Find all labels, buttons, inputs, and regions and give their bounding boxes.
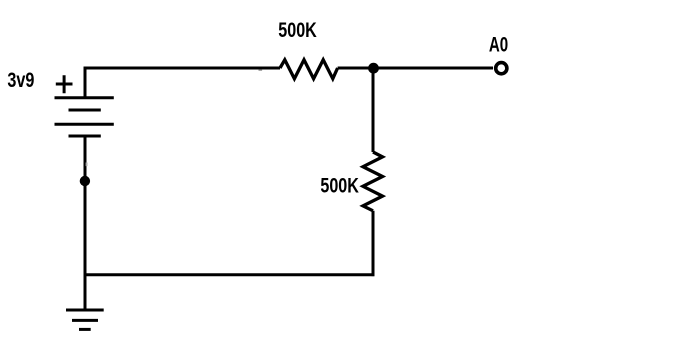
pin mark on battery negative wire [86,163,88,167]
wire bottom rail [85,273,374,276]
resistor R2 500K vertical [363,152,383,211]
ground [66,310,104,329]
battery B1 [55,98,114,136]
wire R1 to terminal A0 [338,67,493,70]
pin mark left of R1 [259,70,263,72]
wire battery top to corner [84,67,87,98]
junction dot on battery negative wire [80,176,90,186]
resistor R1 500K horizontal [280,60,338,79]
wire battery bottom to ground [84,136,87,310]
terminal A0 open circle [496,63,507,74]
battery B1 plus sign [56,75,73,93]
svg-text:A0: A0 [489,32,508,56]
junction node dot [368,63,379,74]
svg-text:3v9: 3v9 [7,68,34,92]
wire top rail to R1 [84,67,280,70]
svg-text:500K: 500K [320,173,359,197]
svg-text:500K: 500K [278,18,317,42]
wire R2 bottom down [372,211,375,276]
wire node down to R2 [372,68,375,152]
